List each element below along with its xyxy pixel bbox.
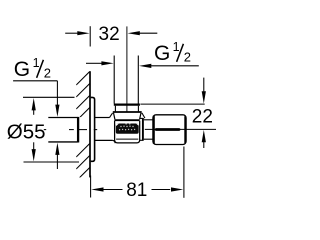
escutcheon flange <box>91 97 95 161</box>
G1/2 left leader down arrow <box>55 81 59 117</box>
outlet pipe centerline / 32 right extension <box>126 26 128 111</box>
body shoulder flare right <box>142 113 145 118</box>
Ø55 top extension line <box>23 96 75 98</box>
inlet pipe bottom line <box>48 141 77 143</box>
handle right face thick <box>184 116 186 143</box>
thread dim left arrow at outlet pipe (pointing right) <box>86 61 114 65</box>
dim 81 left extension line <box>90 176 92 198</box>
nut lower sides <box>114 113 115 120</box>
body right tube top <box>140 117 143 119</box>
dim 81 left arrow <box>91 187 122 191</box>
svg-text:Ø55: Ø55 <box>7 120 46 143</box>
body shoulder flare left <box>109 113 112 118</box>
G1/2 top-right label <box>154 40 191 65</box>
body top base line under nut <box>115 119 140 121</box>
svg-text:G: G <box>154 42 170 65</box>
handle knob <box>153 115 186 145</box>
stem bottom <box>144 138 153 140</box>
handle left face thick <box>153 116 155 144</box>
knurl corner notches <box>116 124 119 127</box>
dim 81 right extension line <box>183 147 185 198</box>
inlet pipe end cap <box>77 117 79 143</box>
axis line through stem/handle to right edge <box>145 128 216 130</box>
svg-text:2: 2 <box>44 65 51 80</box>
wall hatching <box>76 71 90 192</box>
knurled dark band <box>116 124 139 134</box>
outlet pipe right wall <box>137 56 139 104</box>
inlet thread pipe (in wall) top line <box>48 117 77 119</box>
body left tube bottom <box>95 139 113 141</box>
body left tube top <box>95 117 109 119</box>
nut neck sides <box>114 106 116 112</box>
Ø55 dimension line lower + down arrow <box>32 142 36 161</box>
svg-text:32: 32 <box>99 24 120 45</box>
G1/2 left second arrow (up, at pipe bottom) <box>55 143 59 169</box>
body right tube bottom <box>140 139 143 141</box>
Ø55 dimension line upper + up arrow <box>32 98 36 115</box>
dim 22 up arrow <box>202 130 206 148</box>
handle slot (dark lens) <box>155 128 181 131</box>
G1/2 top-right leader underline + left arrow to pipe <box>139 64 199 68</box>
wall <box>89 71 91 177</box>
central block outline <box>115 121 140 143</box>
stem top <box>144 119 153 121</box>
inlet axis centerline dashes <box>44 129 97 131</box>
nut hex flange bar <box>113 111 142 113</box>
svg-text:1: 1 <box>33 56 40 70</box>
32 right arrow (pointing left) <box>128 31 158 35</box>
body right face <box>142 118 144 141</box>
dim 81 right arrow <box>152 187 184 191</box>
svg-text:G: G <box>14 58 30 81</box>
knurl white dots <box>119 123 135 130</box>
svg-text:22: 22 <box>192 107 213 128</box>
svg-text:2: 2 <box>184 49 191 64</box>
Ø55 bottom extension line <box>24 161 80 163</box>
svg-text:1: 1 <box>173 40 180 54</box>
32 left arrow (pointing right) <box>65 31 89 35</box>
block inner line <box>116 138 138 140</box>
label G 1/2 (left, inlet thread) <box>13 56 57 81</box>
dim 22 down arrow <box>202 78 206 104</box>
left step down to block bottom <box>113 140 116 143</box>
32 left extension line (wall surface) <box>89 26 91 46</box>
outlet pipe left wall <box>113 56 115 104</box>
compression nut top bar <box>114 103 140 105</box>
svg-text:81: 81 <box>126 180 147 201</box>
dim 22 top extension line <box>140 103 204 105</box>
